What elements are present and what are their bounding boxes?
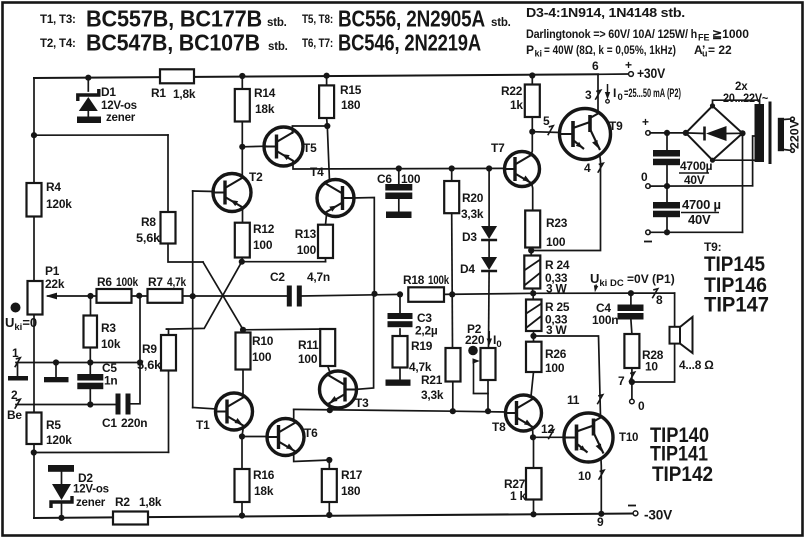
wire left trunk bottom — [33, 444, 35, 518]
svg-text:TIP142: TIP142 — [652, 463, 713, 486]
ground bar of D2 — [48, 465, 74, 472]
resistor R11 — [320, 329, 335, 366]
node T3 emitter on bias line — [327, 407, 333, 413]
potentiometer P2 — [481, 348, 496, 380]
node speaker return — [629, 379, 635, 385]
svg-text:R4: R4 — [46, 180, 61, 194]
resistor R8 — [161, 212, 176, 244]
resistor R21 — [446, 348, 461, 382]
node T7 collector / T9 base — [529, 129, 535, 135]
P2 wiper arrow — [474, 361, 478, 394]
svg-text:≧1000: ≧1000 — [712, 27, 749, 41]
wire D3-D4 — [488, 241, 490, 258]
wire T3 base to feedback node — [355, 294, 374, 390]
svg-text:T5: T5 — [303, 141, 317, 155]
node R16 on rail — [239, 513, 245, 519]
wire PSU 0 line — [650, 185, 753, 187]
svg-text:stb.: stb. — [268, 41, 288, 53]
wire R15 bottom lead — [326, 118, 329, 126]
resistor R24 power — [524, 256, 540, 289]
node PSU caps mid — [664, 183, 670, 189]
wire C3 top lead — [399, 294, 401, 313]
node R17 top — [326, 457, 332, 463]
resistor R12 — [235, 223, 250, 258]
wire R26 bottom / T8 collector — [531, 372, 534, 397]
capacitor 4700u upper — [653, 150, 680, 157]
resistor R19 — [393, 336, 408, 368]
transistor T1 — [216, 393, 253, 430]
svg-text:220n: 220n — [121, 416, 147, 430]
svg-text:T2: T2 — [249, 170, 263, 184]
pin mark input 1 — [15, 358, 21, 368]
wire primary bottom lead — [784, 149, 790, 152]
wire to T10 collector — [534, 336, 601, 417]
wire primary top lead — [784, 118, 790, 121]
wire C4-R28 — [631, 320, 632, 335]
transistor T8 — [506, 395, 542, 431]
transistor T4 — [317, 180, 354, 217]
wire T2 base lead — [193, 190, 214, 193]
wire T1 base lead — [193, 408, 217, 410]
node bridge bottom — [710, 158, 715, 163]
svg-text:T9: T9 — [609, 119, 623, 133]
svg-text:10: 10 — [578, 469, 591, 483]
svg-text:0: 0 — [618, 92, 623, 103]
wire bias line to T8 base — [294, 409, 506, 412]
resistor R14 — [235, 89, 250, 122]
svg-text:5: 5 — [543, 114, 550, 128]
node R22 on rail — [529, 72, 535, 78]
wire R28 bottom lead — [631, 368, 633, 399]
svg-text:P: P — [526, 43, 534, 57]
terminal PSU 0 — [646, 184, 651, 189]
wire to D3 — [488, 169, 490, 227]
wire R27 bottom lead — [533, 500, 535, 515]
diode D3 — [481, 226, 497, 239]
wire R27 top lead — [533, 437, 535, 468]
wire input 2 line — [16, 404, 115, 406]
node bridge right — [739, 130, 745, 136]
svg-text:100k: 100k — [116, 275, 138, 289]
svg-text:BC557B, BC177B: BC557B, BC177B — [86, 6, 262, 32]
transistor T7 — [505, 152, 540, 187]
svg-text:100k: 100k — [428, 273, 449, 287]
svg-text:T6: T6 — [304, 426, 318, 440]
node R14 on rail — [239, 73, 245, 79]
resistor R18 — [408, 287, 444, 302]
svg-text:R6: R6 — [97, 275, 112, 289]
wire to R8 top — [167, 135, 169, 212]
wire common base vertical — [192, 191, 194, 408]
svg-text:T4: T4 — [310, 165, 324, 179]
wire cap2 bottom lead — [666, 217, 668, 232]
node C5/input2 line — [87, 401, 93, 407]
node D1 top rail — [85, 75, 91, 81]
svg-text:Uki DC =0V (P1): Uki DC =0V (P1) — [590, 271, 675, 289]
speaker — [670, 327, 681, 344]
svg-text:R5: R5 — [46, 418, 61, 432]
wire left trunk lower — [33, 315, 35, 413]
node R15 on rail — [324, 73, 330, 79]
ground bar input shield — [44, 377, 69, 382]
transistor T6 — [267, 419, 304, 456]
node P2 on bias line — [485, 408, 491, 414]
wire R17 bottom lead — [328, 502, 330, 515]
resistor R28 — [624, 334, 639, 368]
svg-text:R19: R19 — [411, 339, 433, 353]
wire jack1 sleeve stub — [17, 363, 19, 377]
pin mark input 2 — [15, 399, 21, 409]
wire to T6 base — [242, 436, 268, 438]
transformer secondary — [755, 104, 765, 162]
svg-text:+: + — [625, 58, 632, 72]
wire R11 bottom / T3 collector — [328, 366, 330, 373]
svg-text:R1: R1 — [151, 86, 166, 100]
wire D1 bottom lead — [87, 111, 89, 117]
terminal PSU minus — [646, 230, 651, 235]
svg-text:T5, T8:: T5, T8: — [302, 14, 333, 26]
svg-text:TIP147: TIP147 — [704, 294, 769, 317]
svg-text:T6, T7:: T6, T7: — [302, 38, 333, 50]
wire T4 base to feedback node — [353, 198, 374, 294]
resistor R10 — [236, 333, 251, 370]
pin 10 mark — [599, 470, 605, 480]
svg-text:3,3k: 3,3k — [461, 207, 484, 221]
pin 8 mark — [652, 289, 658, 299]
svg-text:R 24: R 24 — [545, 258, 570, 272]
wire to R21 top — [451, 294, 453, 348]
svg-text:R14: R14 — [254, 86, 276, 100]
svg-text:100: 100 — [401, 172, 421, 186]
svg-text:1k: 1k — [510, 98, 523, 112]
node Uki adjust dot — [11, 303, 21, 313]
wire R10-R11 link — [243, 328, 328, 331]
wire output line — [533, 292, 674, 294]
resistor R5 — [27, 413, 42, 445]
wire R19 bottom lead — [399, 368, 401, 380]
node R3 top — [87, 293, 93, 299]
svg-text:0: 0 — [638, 399, 645, 413]
svg-text:180: 180 — [341, 98, 361, 112]
capacitor C1 — [116, 394, 121, 415]
wire to T10 base — [533, 436, 565, 438]
svg-text:12V-os: 12V-os — [101, 100, 137, 112]
wire R18 to output node — [444, 293, 533, 294]
svg-text:R20: R20 — [462, 191, 484, 205]
svg-text:10: 10 — [645, 360, 658, 374]
wire T5 collector link — [292, 126, 327, 133]
svg-text:5,6k: 5,6k — [137, 358, 162, 372]
svg-text:+: + — [642, 115, 649, 129]
svg-text:R13: R13 — [295, 227, 317, 241]
pin 11 mark — [597, 395, 603, 405]
wire D2 top lead — [61, 472, 63, 484]
wire R8 bottom to cross — [168, 244, 203, 263]
node PSU cap1 top — [664, 130, 670, 136]
label minus at PSU terminal — [644, 241, 652, 243]
svg-text:4: 4 — [584, 161, 591, 175]
pin 5 mark — [548, 126, 554, 136]
svg-text:zener: zener — [76, 497, 106, 509]
svg-text:8: 8 — [656, 293, 663, 307]
node x34/y135 — [31, 132, 37, 138]
svg-text:100: 100 — [298, 352, 318, 366]
I0 measure arrow — [607, 84, 609, 97]
wire R12-R13 tail — [242, 261, 326, 263]
svg-text:R9: R9 — [142, 342, 157, 356]
resistor R7 — [148, 289, 183, 303]
svg-text:T10: T10 — [619, 432, 638, 444]
node C6 top — [396, 165, 402, 171]
resistor R22 — [525, 85, 540, 118]
svg-text:T1, T3:: T1, T3: — [40, 14, 76, 26]
node C1 riser on input1 line — [137, 359, 143, 365]
wire R14 bottom / T2 collector — [241, 122, 243, 175]
capacitor C6 — [385, 184, 412, 191]
zener diode D2 — [52, 484, 71, 500]
svg-text:0: 0 — [641, 170, 648, 184]
svg-text:3: 3 — [585, 88, 592, 102]
resistor R25 power — [526, 300, 542, 332]
resistor R6 — [97, 289, 132, 303]
wire D4 to P2 — [488, 272, 491, 349]
svg-text:BC556, 2N2905A: BC556, 2N2905A — [338, 6, 485, 32]
terminal 220V bottom — [791, 149, 795, 153]
wire R22 top lead — [531, 76, 533, 85]
capacitor C2 — [287, 286, 292, 307]
terminal PSU plus — [646, 131, 651, 136]
wire D2 bottom lead — [61, 502, 63, 518]
terminal +30V — [629, 72, 634, 77]
node C3 top — [397, 291, 403, 297]
ground bar of R19 — [386, 380, 411, 386]
svg-text:2x: 2x — [735, 81, 748, 93]
wire left trunk mid — [33, 217, 35, 282]
terminal -30V — [633, 511, 638, 516]
wire R9 top stub — [167, 329, 169, 335]
wire R3 bottom to input1 line — [89, 348, 91, 374]
wire T9 emitter to R23 bottom — [531, 157, 600, 251]
svg-text:20...22V~: 20...22V~ — [723, 93, 768, 105]
wire R24 bottom lead — [531, 289, 534, 294]
wire to T9 base — [532, 131, 560, 134]
ground bar of D1 — [77, 117, 101, 124]
wire R23 bottom lead — [531, 248, 533, 256]
node bridge left — [683, 130, 689, 136]
svg-text:stb.: stb. — [267, 17, 287, 29]
svg-text:120k: 120k — [46, 197, 72, 211]
svg-text:4,7k: 4,7k — [409, 360, 432, 374]
pin 7 mark — [629, 372, 635, 382]
svg-text:C1: C1 — [102, 416, 117, 430]
wire P2 wiper join — [474, 393, 489, 395]
node input shield — [53, 359, 59, 365]
wire R21 bottom lead — [452, 382, 454, 412]
svg-text:6: 6 — [592, 59, 599, 73]
node base-line/feedback — [190, 293, 196, 299]
svg-text:5,6k: 5,6k — [136, 231, 161, 245]
wire input 1 line — [16, 362, 140, 364]
wire R13 top / T4 emitter — [326, 215, 327, 225]
wire T1 emitter lead — [242, 426, 244, 437]
svg-text:= 40W (8Ω, k = 0,05%, 1kHz): = 40W (8Ω, k = 0,05%, 1kHz) — [544, 43, 676, 57]
svg-text:7: 7 — [618, 374, 625, 388]
svg-text:R21: R21 — [421, 373, 443, 387]
svg-text:BC547B, BC107B: BC547B, BC107B — [86, 30, 260, 56]
svg-text:=25...50 mA (P2): =25...50 mA (P2) — [624, 86, 681, 100]
node R23/R24/T9e — [528, 247, 534, 253]
node D2 on rail — [58, 515, 64, 521]
svg-text:4,7n: 4,7n — [307, 270, 330, 284]
svg-text:R7: R7 — [148, 275, 163, 289]
wire C6 bottom lead — [398, 199, 400, 212]
svg-text:100n: 100n — [592, 313, 618, 327]
svg-text:D4: D4 — [460, 262, 475, 276]
resistor R23 — [525, 211, 540, 248]
wire R20 top lead — [451, 169, 453, 182]
wire shield stub — [55, 363, 57, 377]
wire P2 bottom lead — [487, 380, 489, 411]
svg-text:40V: 40V — [684, 173, 705, 187]
svg-text:4700 µ: 4700 µ — [682, 197, 721, 212]
svg-text:2: 2 — [11, 388, 18, 402]
wire T10 emitter to rail — [600, 460, 602, 514]
wire cap1 top lead — [666, 133, 668, 150]
svg-text:100: 100 — [546, 235, 566, 249]
svg-text:120k: 120k — [46, 433, 72, 447]
svg-text:R10: R10 — [252, 334, 274, 348]
node T1 emitter / R16 / T6 base — [239, 433, 245, 439]
transistor T5 — [264, 127, 303, 166]
wire T6 collector to bias line — [293, 409, 295, 420]
terminal 220V top — [791, 117, 795, 121]
svg-text:T3: T3 — [355, 396, 369, 410]
svg-text:R8: R8 — [141, 215, 156, 229]
svg-text:4700µ: 4700µ — [680, 159, 713, 173]
svg-text:R17: R17 — [341, 468, 363, 482]
svg-text:P1: P1 — [45, 264, 60, 278]
node T5 base — [239, 144, 245, 150]
wire T7 collector lead — [531, 132, 532, 156]
wire -12V stab line — [34, 451, 169, 453]
svg-text:220: 220 — [465, 333, 485, 347]
wire bridge right to minus — [742, 133, 744, 232]
svg-text:ki: ki — [535, 49, 543, 59]
resistor R13 — [318, 225, 333, 258]
wire T8 emitter lead — [532, 428, 535, 438]
wire R6-R7 — [132, 295, 148, 297]
wire speaker bottom return — [632, 344, 675, 383]
svg-text:D3-4:1N914, 1N4148 stb.: D3-4:1N914, 1N4148 stb. — [526, 6, 685, 20]
node T10 on rail — [598, 511, 604, 517]
resistor R4 — [27, 183, 42, 217]
node P2 adjust dot — [468, 346, 478, 356]
resistor R3 — [84, 316, 98, 348]
wire R10 bottom / T1 collector — [242, 370, 244, 397]
wire T2 emitter to R12 — [242, 208, 244, 223]
wire bridge bottom to transformer — [713, 159, 755, 161]
node R3/C5/input1 — [87, 359, 93, 365]
svg-text:Uki=0: Uki=0 — [5, 315, 37, 333]
wire T6 emitter to R17 — [294, 454, 330, 462]
capacitor 4700u lower — [653, 202, 680, 209]
pin 4 mark — [598, 163, 604, 173]
wire C3-R19 — [399, 329, 401, 336]
wire left trunk upper — [33, 78, 35, 183]
wire T9 collector — [597, 74, 599, 111]
svg-text:FE: FE — [698, 33, 710, 43]
svg-text:T7: T7 — [491, 141, 505, 155]
node T5 collector / T4 collector — [324, 123, 330, 129]
zener diode D1 — [79, 97, 98, 111]
pin 12 mark — [548, 430, 554, 440]
svg-text:1: 1 — [12, 346, 19, 360]
node R20 top — [449, 165, 455, 171]
svg-text:40V: 40V — [688, 212, 711, 227]
wire T5 emitter / bias line to T7 base — [293, 161, 505, 169]
svg-text:stb.: stb. — [491, 17, 511, 29]
node R6/R7 junction — [136, 293, 142, 299]
svg-text:12: 12 — [541, 422, 554, 436]
svg-text:R22: R22 — [501, 84, 523, 98]
wire cross diagonal R8-R10 — [203, 262, 243, 330]
resistor R17 — [322, 469, 337, 502]
svg-text:T8: T8 — [492, 420, 506, 434]
svg-text:18k: 18k — [255, 102, 275, 116]
wire R25 top lead — [532, 293, 534, 299]
svg-text:220V: 220V — [788, 120, 802, 149]
svg-text:R12: R12 — [253, 222, 275, 236]
svg-text:R15: R15 — [340, 83, 362, 97]
wire PSU minus line — [650, 231, 743, 233]
svg-text:9: 9 — [597, 515, 604, 529]
node R21 on bias line — [450, 408, 456, 414]
svg-text:18k: 18k — [254, 484, 274, 498]
svg-text:R16: R16 — [253, 468, 275, 482]
node R25/R26/T10c — [530, 333, 536, 339]
svg-text:3 W: 3 W — [546, 323, 568, 337]
resistor R15 — [319, 85, 334, 118]
wire R3 top lead — [90, 296, 92, 316]
wire cap1-cap2 — [666, 165, 668, 202]
node x34/y452 — [31, 449, 37, 455]
wire D1 top lead — [87, 78, 89, 91]
resistor R26 — [526, 342, 542, 372]
svg-text:C2: C2 — [270, 270, 285, 284]
svg-text:R23: R23 — [546, 216, 568, 230]
node bridge top — [710, 103, 715, 108]
wire transformer center tap — [753, 136, 755, 186]
svg-text:10k: 10k — [101, 337, 121, 351]
potentiometer P1 — [28, 281, 43, 315]
pin 3 mark — [595, 90, 601, 100]
svg-text:4,7k: 4,7k — [167, 275, 186, 289]
svg-text:BC546, 2N2219A: BC546, 2N2219A — [338, 30, 481, 56]
node R27 on rail — [530, 511, 536, 517]
svg-text:11: 11 — [567, 393, 580, 407]
svg-text:zener: zener — [106, 112, 136, 124]
resistor R2 — [113, 512, 148, 525]
wire R17 top lead — [328, 460, 330, 469]
svg-text:22k: 22k — [45, 277, 65, 291]
wire speaker top — [674, 293, 676, 327]
resistor R1 — [160, 69, 194, 83]
svg-text:-30V: -30V — [644, 508, 672, 523]
wire R22 bottom lead — [531, 117, 533, 132]
wire T7 emitter to R23 — [532, 183, 533, 211]
wire C2 to R18 — [302, 294, 400, 296]
resistor R9 — [161, 335, 176, 371]
